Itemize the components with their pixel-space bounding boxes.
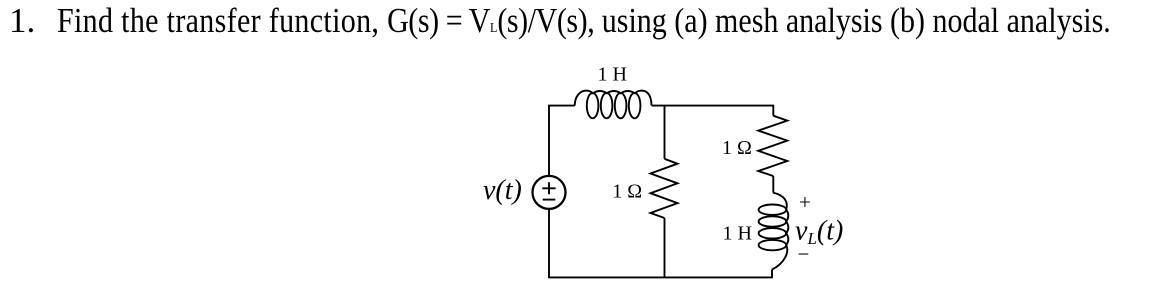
inductor L1 loop 2 — [601, 93, 613, 118]
svg-text:1 H: 1 H — [598, 64, 627, 86]
wire: left vertical bottom (source to bottom wire) — [548, 209, 550, 278]
wire: right branch bottom stub — [771, 270, 773, 278]
wire: middle branch lower — [664, 218, 666, 277]
svg-text:1 Ω: 1 Ω — [722, 137, 752, 159]
inductor L1 loop 1 — [587, 93, 599, 118]
inductor L1 loop 3 — [615, 93, 627, 118]
voltage source V1 circle — [533, 176, 566, 209]
wire: right branch upper stub — [772, 105, 774, 116]
svg-text:1 Ω: 1 Ω — [612, 180, 642, 202]
inductor L1 loop 4 — [629, 93, 641, 118]
inductor L2 loop 3 — [759, 228, 787, 238]
inductor L2 entry arc — [773, 193, 787, 210]
title text — [9, 1, 35, 41]
wire: left vertical top (source to top-left corner) — [548, 106, 550, 176]
wire: right branch stub between R2 and L2 — [772, 176, 774, 193]
wire: top horizontal left segment — [548, 105, 575, 107]
svg-text:+: + — [799, 190, 811, 214]
resistor R1 middle zigzag — [651, 159, 678, 218]
inductor L2 loop 4 — [759, 240, 787, 250]
svg-text:v(t): v(t) — [483, 175, 522, 206]
wire: top horizontal right segment — [652, 105, 774, 107]
svg-text:−: − — [798, 242, 810, 266]
inductor L2 loop 2 — [759, 216, 787, 226]
svg-text:1 H: 1 H — [723, 223, 752, 245]
wire: bottom horizontal — [548, 276, 773, 278]
inductor L2 humps — [786, 210, 788, 245]
voltage source V1 minus sign — [543, 199, 556, 201]
inductor L2 loop 1 — [759, 205, 787, 215]
voltage source V1 plus sign — [542, 182, 555, 194]
inductor L2 exit arc — [772, 245, 787, 269]
inductor L1 top coil entry/humps/exit — [575, 91, 652, 106]
resistor R2 right zigzag — [758, 116, 787, 176]
wire: middle branch upper — [664, 106, 666, 159]
